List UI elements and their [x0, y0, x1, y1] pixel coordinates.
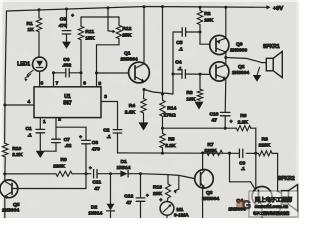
svg-text:R2: R2	[204, 11, 211, 17]
svg-text:R9: R9	[61, 157, 68, 163]
svg-text:C8: C8	[60, 16, 67, 22]
svg-text:C4: C4	[175, 59, 182, 65]
svg-text:10K: 10K	[204, 17, 213, 23]
svg-text:LED1: LED1	[17, 62, 30, 68]
svg-text:270Ω: 270Ω	[164, 112, 176, 118]
svg-text:+: +	[89, 166, 92, 171]
svg-text:+: +	[79, 134, 82, 139]
svg-text:220K: 220K	[53, 164, 65, 170]
svg-text:R7: R7	[207, 142, 214, 148]
svg-text:+: +	[230, 119, 233, 124]
svg-text:C7: C7	[64, 137, 71, 143]
svg-text:.1: .1	[241, 166, 245, 171]
svg-text:C12: C12	[124, 194, 133, 200]
svg-text:Q5: Q5	[13, 202, 20, 208]
svg-text:R8: R8	[262, 136, 269, 142]
svg-text:Q6: Q6	[236, 42, 243, 48]
svg-text:1N914: 1N914	[117, 165, 131, 170]
svg-text:15K: 15K	[85, 36, 94, 42]
svg-text:+9V: +9V	[273, 6, 283, 12]
svg-text:.22: .22	[65, 143, 72, 149]
svg-text:2N3904: 2N3904	[202, 196, 219, 202]
svg-text:1: 1	[43, 119, 46, 125]
svg-text:0-1MA: 0-1MA	[174, 212, 189, 218]
svg-text:2N3906: 2N3906	[230, 47, 247, 53]
svg-text:567: 567	[63, 101, 72, 107]
svg-text:2N3904: 2N3904	[121, 57, 138, 63]
svg-text:C2: C2	[103, 128, 110, 134]
svg-text:47: 47	[94, 186, 100, 192]
svg-text:1N914: 1N914	[88, 210, 102, 215]
svg-text:C10: C10	[210, 111, 219, 117]
svg-text:+: +	[146, 193, 149, 198]
svg-text:2.2K: 2.2K	[125, 110, 136, 116]
svg-text:+: +	[160, 197, 163, 202]
svg-text:SPKR2: SPKR2	[278, 176, 295, 182]
svg-text:C5: C5	[176, 40, 183, 46]
svg-text:2.2K: 2.2K	[12, 152, 23, 158]
svg-text:6: 6	[83, 81, 86, 87]
svg-text:R1: R1	[27, 21, 34, 27]
svg-text:eeworld.com.cn: eeworld.com.cn	[255, 204, 289, 210]
svg-text:电子工程师的家园欢迎您: 电子工程师的家园欢迎您	[253, 210, 290, 215]
svg-text:R11: R11	[85, 29, 94, 35]
svg-text:R12: R12	[122, 26, 131, 32]
svg-text:.1: .1	[179, 47, 183, 53]
svg-text:R10: R10	[12, 146, 21, 152]
svg-text:Q3: Q3	[206, 190, 213, 196]
svg-text:R4: R4	[129, 103, 136, 109]
svg-text:C1: C1	[26, 126, 33, 132]
svg-text:8: 8	[41, 81, 44, 87]
svg-text:2.2K: 2.2K	[165, 143, 176, 149]
svg-text:+: +	[71, 13, 74, 18]
svg-text:470: 470	[59, 23, 67, 29]
svg-text:R6: R6	[240, 113, 247, 119]
svg-text:7: 7	[56, 81, 59, 87]
svg-text:R5: R5	[168, 137, 175, 143]
svg-text:1K: 1K	[28, 27, 35, 33]
svg-text:网上电子工程师: 网上电子工程师	[255, 196, 293, 204]
svg-text:470: 470	[92, 146, 100, 152]
svg-text:3: 3	[104, 94, 107, 100]
svg-text:.1: .1	[107, 134, 111, 140]
svg-text:47: 47	[126, 200, 132, 206]
svg-text:.1: .1	[28, 132, 32, 138]
svg-text:SPKR1: SPKR1	[263, 44, 280, 50]
svg-text:R3: R3	[186, 90, 193, 96]
svg-text:C11: C11	[92, 180, 101, 186]
svg-text:10K: 10K	[186, 96, 195, 102]
svg-text:5: 5	[98, 81, 101, 87]
svg-text:2N3904: 2N3904	[2, 208, 19, 214]
svg-text:M1: M1	[177, 207, 184, 213]
svg-text:R13: R13	[153, 185, 162, 191]
svg-text:47: 47	[212, 118, 218, 124]
svg-text:.002: .002	[62, 63, 71, 68]
svg-text:Q1: Q1	[124, 51, 131, 57]
svg-text:20K: 20K	[153, 191, 162, 197]
svg-text:Q2: Q2	[238, 64, 245, 70]
svg-text:2N3904: 2N3904	[232, 70, 249, 76]
svg-text:R14: R14	[167, 105, 176, 111]
svg-text:4: 4	[28, 99, 31, 105]
svg-text:C9: C9	[92, 140, 99, 146]
svg-text:U1: U1	[64, 94, 71, 100]
svg-text:25K: 25K	[122, 32, 131, 38]
svg-text:2.2K: 2.2K	[238, 119, 249, 125]
svg-text:.1: .1	[178, 66, 182, 72]
svg-text:220K: 220K	[259, 143, 271, 149]
svg-text:C3: C3	[239, 160, 245, 165]
svg-text:2: 2	[58, 116, 61, 122]
